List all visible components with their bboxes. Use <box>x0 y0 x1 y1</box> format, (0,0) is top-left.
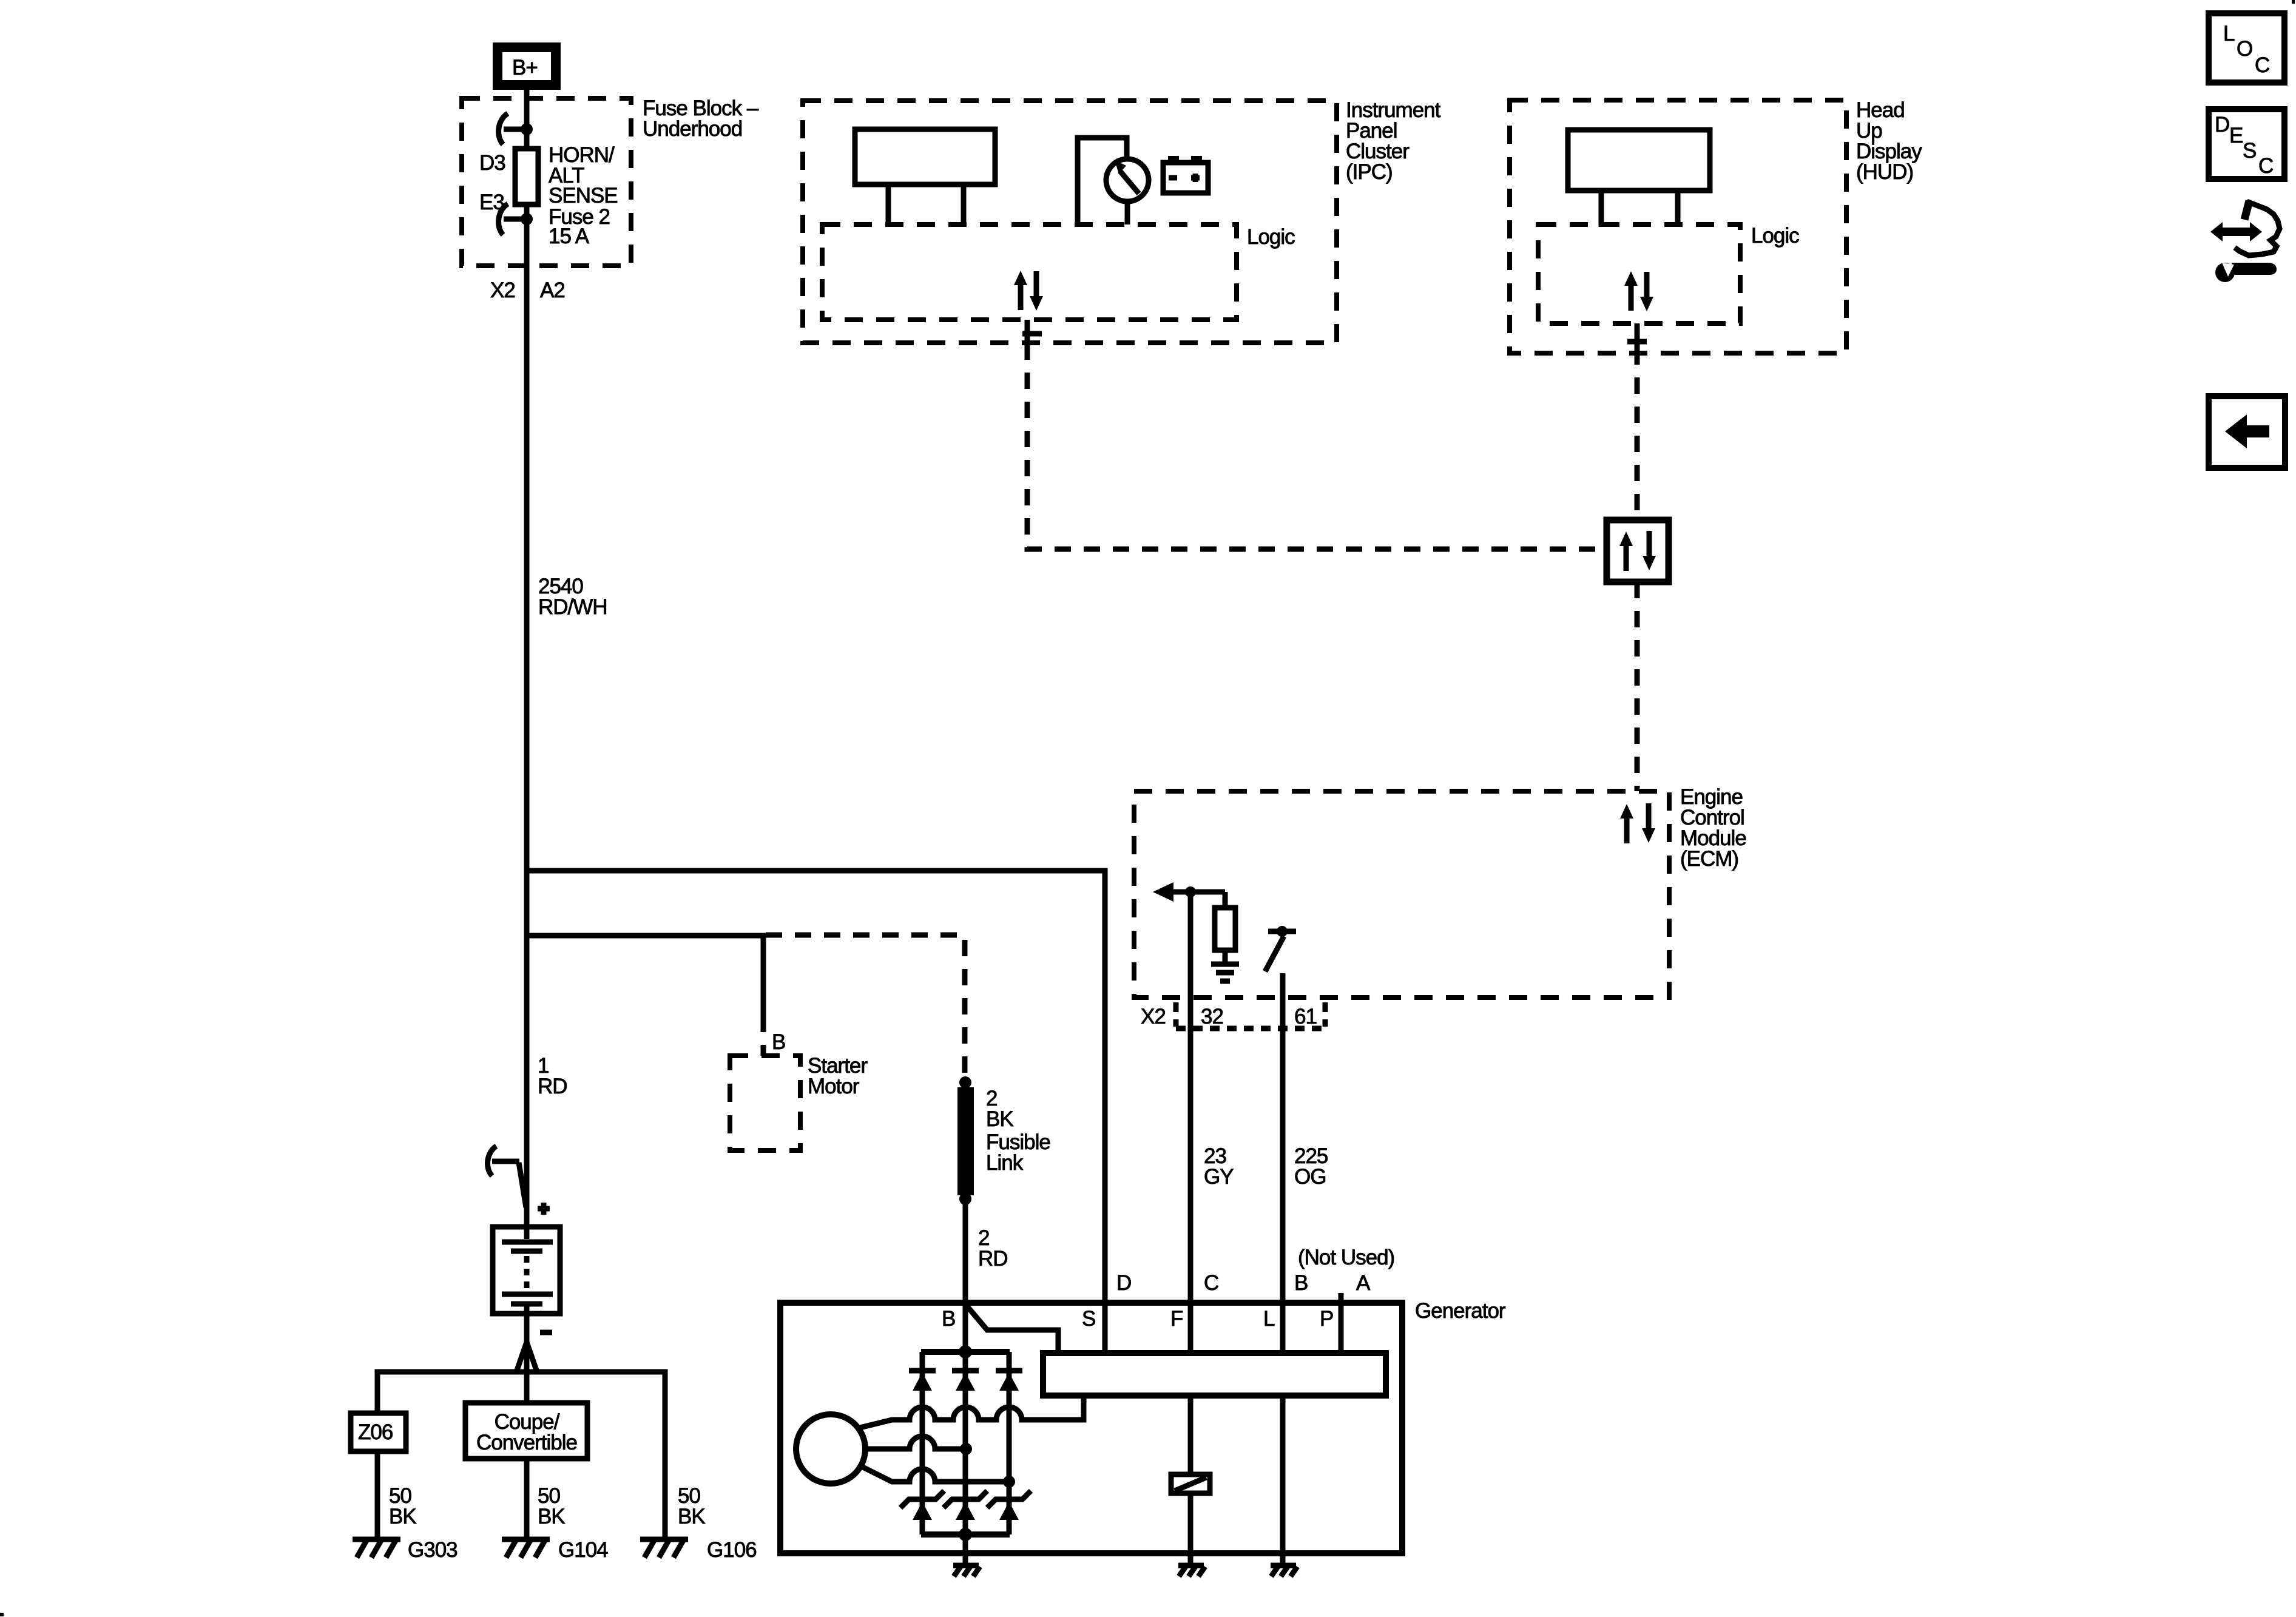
label Engine Control Module (ECM) <box>1680 785 1746 871</box>
LOC icon box <box>2209 13 2284 83</box>
svg-text:RD/WH: RD/WH <box>538 595 607 619</box>
svg-text:OG: OG <box>1294 1165 1326 1189</box>
svg-text:Z06: Z06 <box>358 1420 393 1444</box>
bridge leg 2 <box>963 1352 968 1534</box>
fuse HORN/ALT SENSE Fuse 2 <box>515 149 538 204</box>
label Starter Motor <box>808 1054 868 1098</box>
label Head Up Display (HUD) <box>1856 98 1922 184</box>
HUD Logic dashed box <box>1538 224 1740 323</box>
ECM serial data arrows <box>1620 803 1655 843</box>
label 225 OG <box>1294 1144 1328 1189</box>
svg-text:15 A: 15 A <box>549 224 590 248</box>
clip at fuse top <box>499 113 533 144</box>
dashed data wire splice square to ECM <box>1635 582 1640 791</box>
arrows in splice square <box>1619 531 1656 571</box>
IPC Logic dashed box <box>822 224 1237 320</box>
hand with arrow and wrench icon <box>2210 201 2280 282</box>
dashed stub into starter motor B <box>761 1016 766 1056</box>
IPC dashed box <box>803 101 1337 343</box>
label Fuse Block Underhood <box>643 96 759 141</box>
svg-text:B: B <box>772 1030 785 1054</box>
svg-text:F: F <box>1170 1307 1183 1331</box>
svg-text:SENSE: SENSE <box>549 184 618 208</box>
svg-text:D3: D3 <box>479 151 505 175</box>
ground bus wire <box>377 1372 665 1538</box>
ECM sense arrow <box>1153 882 1225 902</box>
generator ground F <box>1178 1565 1205 1576</box>
svg-text:BK: BK <box>538 1505 565 1528</box>
zener diode 1 <box>900 1491 944 1520</box>
HUD pin stub and tick <box>1627 323 1647 348</box>
svg-text:E: E <box>2229 124 2243 147</box>
wire ECM pin 32 to generator F <box>1188 892 1194 1353</box>
wire B+ to fuse block <box>524 85 530 266</box>
bridge leg 3 <box>1007 1352 1012 1534</box>
B+ terminal box <box>498 47 556 85</box>
ground G303 <box>353 1539 400 1558</box>
svg-text:S: S <box>2243 139 2256 163</box>
bridge leg 1 <box>920 1352 925 1534</box>
label 2 RD <box>978 1226 1008 1271</box>
wire P pin to regulator <box>1339 1303 1344 1353</box>
svg-text:BK: BK <box>986 1107 1013 1131</box>
wire ECM pin 61 to generator L <box>1280 973 1286 1353</box>
ECM connector dashed outline <box>1176 1002 1325 1028</box>
wire fusible link to generator B <box>963 1199 968 1352</box>
svg-text:X2: X2 <box>490 279 515 302</box>
wire battery positive to starter <box>527 936 763 1016</box>
wire S pin to regulator <box>1102 1303 1108 1353</box>
svg-text:Convertible: Convertible <box>476 1431 577 1454</box>
zener diode 3 <box>987 1491 1031 1520</box>
page corner speck top right <box>2292 0 2295 4</box>
Z06 box <box>351 1413 406 1451</box>
generator ground B <box>953 1565 980 1576</box>
minus sign battery <box>540 1330 552 1335</box>
svg-text:RD: RD <box>538 1075 567 1098</box>
IPC serial data arrows <box>1014 271 1043 311</box>
HUD serial data arrows <box>1624 271 1653 311</box>
ECM pull-down resistor <box>1215 892 1235 963</box>
HUD display rect <box>1568 130 1710 227</box>
label 2 BK Fusible Link <box>986 1087 1050 1175</box>
svg-text:(ECM): (ECM) <box>1680 847 1738 871</box>
B branch to regulator <box>967 1306 1058 1353</box>
clip at fuse bottom <box>499 204 533 235</box>
ECM ground <box>1211 964 1239 981</box>
svg-text:Link: Link <box>986 1151 1024 1175</box>
svg-text:RD: RD <box>978 1247 1008 1271</box>
relay coil symbol on F line <box>1171 1474 1210 1493</box>
HUD dashed box <box>1510 100 1846 353</box>
svg-text:D: D <box>1116 1271 1131 1295</box>
svg-text:Motor: Motor <box>808 1075 860 1098</box>
ECM switch <box>1265 926 1296 971</box>
label 23 GY <box>1204 1144 1234 1189</box>
fusible link <box>957 1076 974 1205</box>
IPC battery telltale <box>1163 156 1208 193</box>
ground G106 <box>640 1539 688 1558</box>
generator box <box>780 1303 1402 1553</box>
generator ground L <box>1271 1565 1297 1576</box>
stub pin A not used <box>1339 1293 1344 1303</box>
label 50 BK left <box>389 1484 416 1528</box>
svg-text:O: O <box>2237 37 2252 61</box>
svg-text:B: B <box>942 1307 955 1331</box>
label 50 BK middle <box>538 1484 565 1528</box>
svg-text:Logic: Logic <box>1751 224 1799 248</box>
ECM dashed box <box>1134 791 1669 998</box>
svg-text:GY: GY <box>1204 1165 1234 1189</box>
label 50 BK right <box>678 1484 705 1528</box>
label 2540 RD/WH <box>538 575 607 619</box>
svg-text:L: L <box>1263 1307 1275 1331</box>
svg-text:P: P <box>1320 1307 1333 1331</box>
wire battery negative <box>524 1314 530 1403</box>
wire F below regulator <box>1188 1396 1194 1474</box>
svg-text:X2: X2 <box>1141 1005 1166 1028</box>
zener diode 2 <box>944 1491 987 1520</box>
voltage regulator <box>1043 1353 1386 1396</box>
stator phase winding 3 <box>860 1466 1009 1482</box>
stator phase winding 1 <box>860 1396 1084 1428</box>
dashed wire to fusible link <box>766 935 965 1079</box>
battery box <box>493 1227 560 1314</box>
svg-text:C: C <box>2258 154 2273 178</box>
svg-text:L: L <box>2223 22 2235 46</box>
wire Z06 to G303 <box>375 1451 380 1538</box>
back arrow icon box <box>2209 396 2285 468</box>
fuse block underhood dashed box <box>462 98 631 266</box>
svg-text:BK: BK <box>389 1505 416 1528</box>
ground G104 <box>502 1539 550 1558</box>
svg-text:E3: E3 <box>479 191 504 214</box>
svg-text:C: C <box>2255 53 2269 77</box>
svg-text:C: C <box>1204 1271 1218 1295</box>
rotor circle <box>796 1414 865 1484</box>
rectifier bridge top rail <box>921 1349 1010 1355</box>
wire bridge to ground <box>963 1534 968 1564</box>
top diode 2 <box>952 1371 979 1391</box>
wire L below regulator <box>1280 1396 1286 1564</box>
dashed data wire HUD to splice square <box>1635 348 1640 520</box>
battery internal plates <box>502 1227 553 1314</box>
page corner speck bottom left <box>0 1613 4 1616</box>
DESC icon box <box>2209 109 2284 179</box>
IPC pin stub and tick <box>1022 320 1042 343</box>
wire 2540 RD/WH from fuse to generator S <box>524 266 530 1227</box>
top diode 1 <box>909 1371 936 1391</box>
svg-text:32: 32 <box>1201 1005 1223 1028</box>
svg-text:Logic: Logic <box>1247 225 1295 249</box>
label Instrument Panel Cluster (IPC) <box>1346 98 1441 184</box>
svg-text:Underhood: Underhood <box>643 117 742 141</box>
svg-text:A: A <box>1356 1271 1371 1295</box>
IPC display rect <box>855 129 995 224</box>
svg-text:(Not Used): (Not Used) <box>1298 1246 1394 1269</box>
dashed data wire IPC to splice square <box>1027 343 1607 549</box>
top diode 3 <box>996 1371 1022 1391</box>
splice V at battery negative <box>516 1342 537 1372</box>
svg-text:G303: G303 <box>408 1538 458 1562</box>
serial data splice square <box>1607 520 1669 582</box>
wire Coupe to G104 <box>524 1459 530 1538</box>
svg-text:B+: B+ <box>512 56 538 79</box>
label 1 RD <box>538 1054 567 1098</box>
svg-text:(IPC): (IPC) <box>1346 160 1393 184</box>
Coupe/Convertible box <box>465 1403 587 1459</box>
svg-text:G104: G104 <box>558 1538 608 1562</box>
svg-text:(HUD): (HUD) <box>1856 160 1913 184</box>
svg-text:61: 61 <box>1294 1005 1317 1028</box>
IPC gauge <box>1078 138 1149 224</box>
svg-text:G106: G106 <box>707 1538 757 1562</box>
svg-text:BK: BK <box>678 1505 705 1528</box>
plus sign battery <box>538 1203 550 1215</box>
svg-text:D: D <box>2215 113 2229 137</box>
svg-text:S: S <box>1082 1307 1095 1331</box>
svg-text:B: B <box>1294 1271 1308 1295</box>
starter motor dashed box <box>730 1056 800 1150</box>
svg-text:Generator: Generator <box>1415 1299 1506 1323</box>
fuse value label <box>549 143 618 248</box>
svg-text:A2: A2 <box>540 279 565 302</box>
rectifier bridge bottom rail <box>921 1531 1010 1538</box>
clip at battery positive <box>488 1146 526 1207</box>
stator phase winding 2 <box>865 1436 966 1449</box>
